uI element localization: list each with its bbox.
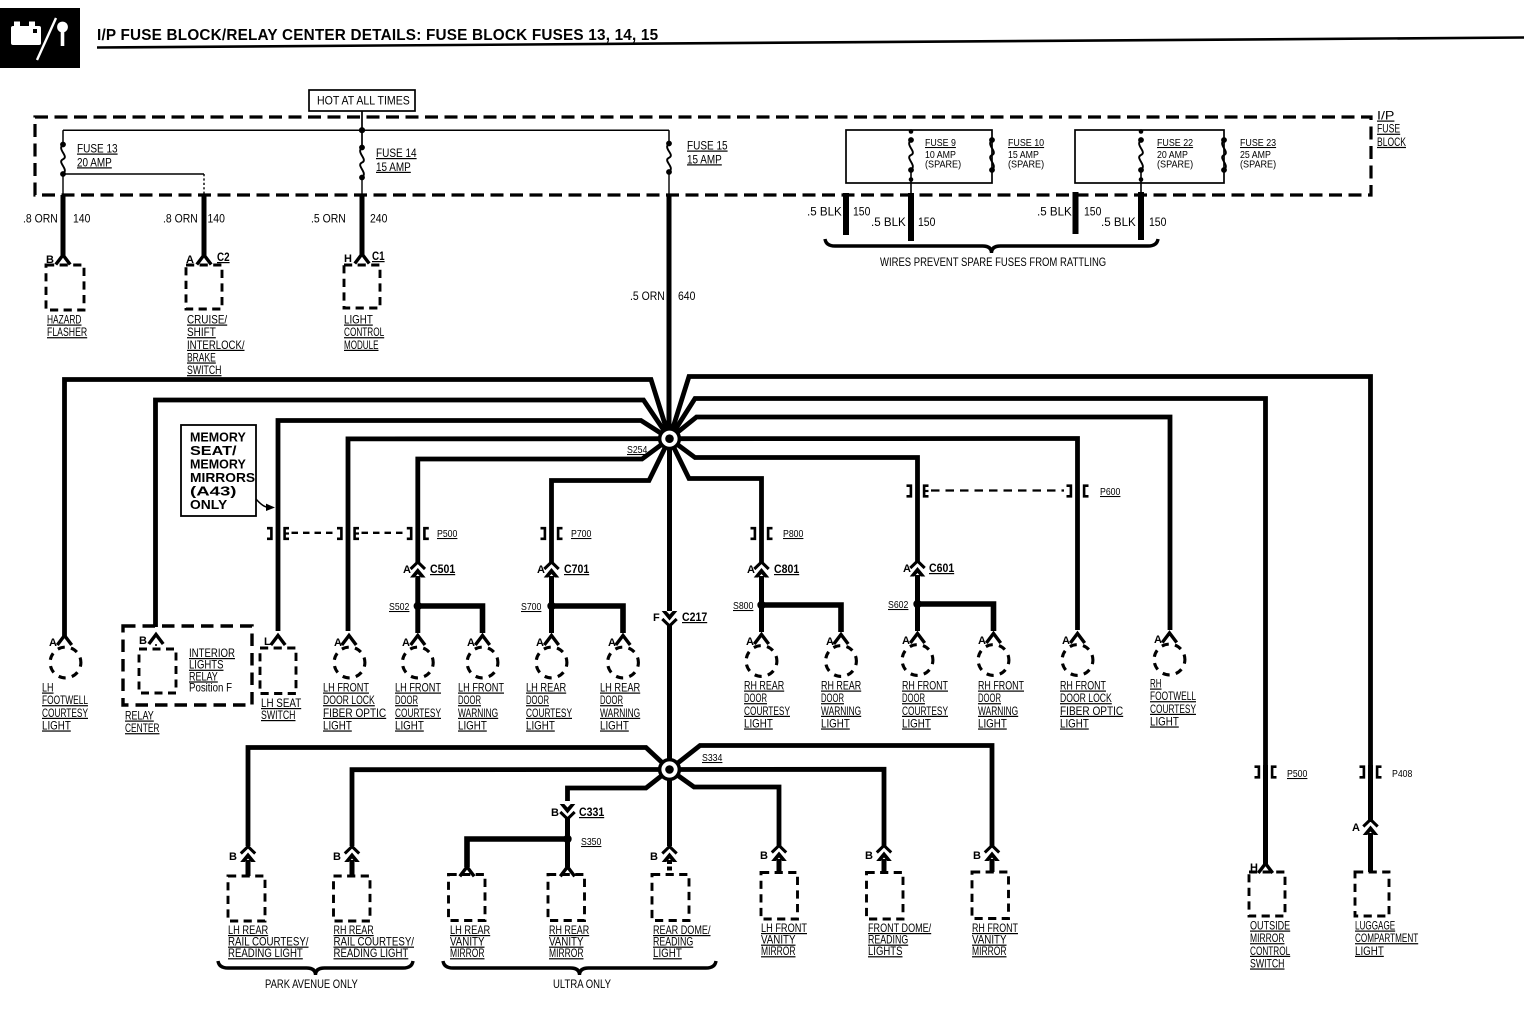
svg-text:.8 ORN: .8 ORN <box>163 212 198 226</box>
svg-text:C2: C2 <box>217 250 230 264</box>
svg-text:FUSE 13: FUSE 13 <box>77 142 118 156</box>
hazard flasher box <box>46 265 84 310</box>
svg-text:640: 640 <box>678 289 696 303</box>
svg-text:LIGHT: LIGHT <box>42 718 71 732</box>
outside mirror control switch box <box>1249 872 1285 916</box>
wire S700 branch to warning light <box>552 606 624 633</box>
svg-text:SWITCH: SWITCH <box>1250 956 1285 970</box>
wire S334 to LH rear rail courtesy <box>248 748 670 847</box>
LH front door lock fiber optic light <box>334 647 365 678</box>
svg-text:(SPARE): (SPARE) <box>1157 159 1193 171</box>
svg-text:A: A <box>1352 822 1360 834</box>
svg-text:MIRROR: MIRROR <box>761 944 796 958</box>
wire S254 to LH footwell <box>65 380 670 637</box>
wire luggage lower <box>1368 765 1373 822</box>
svg-text:150: 150 <box>1149 215 1167 229</box>
interior lights relay box <box>139 649 176 693</box>
svg-text:.5 ORN: .5 ORN <box>630 289 665 303</box>
wire S254 to C501 <box>418 439 670 563</box>
svg-text:.5 BLK: .5 BLK <box>1101 215 1136 229</box>
wire S254 to relay center <box>156 400 670 627</box>
svg-text:P500: P500 <box>437 528 458 540</box>
svg-text:P600: P600 <box>1100 486 1121 498</box>
svg-text:.5 BLK: .5 BLK <box>807 205 842 219</box>
fuse F22 20A spare <box>1139 129 1144 134</box>
luggage compartment light box <box>1355 872 1389 916</box>
wire S254 to LH front door lock <box>348 439 670 631</box>
RH footwell courtesy light <box>1154 644 1185 675</box>
wire S334 to LH front vanity <box>670 770 780 847</box>
svg-text:LIGHT: LIGHT <box>744 716 773 730</box>
svg-text:ULTRA ONLY: ULTRA ONLY <box>553 977 611 991</box>
wire S602 down <box>915 604 920 631</box>
brace ultra only <box>443 961 716 975</box>
svg-text:B: B <box>865 850 873 862</box>
svg-text:140: 140 <box>208 212 226 226</box>
LH front vanity mirror box <box>761 873 798 920</box>
wire fuse14 out <box>361 178 363 196</box>
wire S502 branch to warning light <box>418 606 483 633</box>
wire C331 to S350 <box>565 818 570 839</box>
fuse F13 20A <box>60 142 66 148</box>
svg-text:A: A <box>903 563 911 575</box>
RH front vanity mirror box <box>972 872 1009 919</box>
wire S334 to RH front vanity <box>670 746 993 847</box>
wire S254 to RH footwell <box>670 417 1171 630</box>
svg-text:A: A <box>902 635 910 647</box>
svg-text:S602: S602 <box>888 599 909 611</box>
svg-text:READING LIGHT: READING LIGHT <box>334 946 409 960</box>
wire spare stub 4 <box>1138 192 1144 240</box>
connector P408 luggage <box>1360 767 1364 778</box>
svg-text:FUSE: FUSE <box>1377 122 1400 136</box>
wire S254 to RH front door lock <box>670 439 1078 631</box>
svg-text:LIGHT: LIGHT <box>821 716 850 730</box>
splice S502 <box>414 602 422 610</box>
svg-text:B: B <box>551 807 559 819</box>
LH rear door warning light <box>608 647 639 678</box>
wire S254 to outside mirror switch <box>670 399 1266 768</box>
svg-text:I/P FUSE BLOCK/RELAY CENTER DE: I/P FUSE BLOCK/RELAY CENTER DETAILS: FUS… <box>97 27 659 44</box>
fuse F9 10A spare <box>909 129 914 134</box>
svg-text:.5 BLK: .5 BLK <box>1037 205 1072 219</box>
svg-text:240: 240 <box>370 212 388 226</box>
RH front door lock fiber optic light <box>1062 645 1093 676</box>
svg-text:P408: P408 <box>1392 768 1413 780</box>
svg-text:A: A <box>1154 634 1162 646</box>
svg-text:MODULE: MODULE <box>344 338 379 352</box>
svg-text:FUSE 14: FUSE 14 <box>376 146 417 160</box>
svg-text:SWITCH: SWITCH <box>261 708 296 722</box>
svg-text:B: B <box>139 635 147 647</box>
RH rear door warning light <box>826 646 857 677</box>
brace park avenue only <box>218 961 413 975</box>
svg-text:C1: C1 <box>372 249 385 263</box>
wire fuse13 tap to C2 branch <box>63 173 204 175</box>
LH front door courtesy light <box>402 647 433 678</box>
svg-text:HOT AT ALL TIMES: HOT AT ALL TIMES <box>317 94 410 108</box>
svg-text:C801: C801 <box>774 562 799 576</box>
svg-text:SWITCH: SWITCH <box>187 363 222 377</box>
connector P600 <box>907 486 911 497</box>
svg-text:A: A <box>747 564 755 576</box>
wire S700 down <box>549 606 554 633</box>
splice S350 <box>563 835 571 843</box>
light control module box <box>344 265 380 308</box>
wire .5 ORN 640 main feed <box>667 195 672 439</box>
wire S350 down RH rear vanity <box>565 839 570 867</box>
wire .8 ORN 140 cruise <box>202 195 207 256</box>
wire S254 to C701 <box>552 439 670 563</box>
cruise/shift interlock box <box>186 265 222 309</box>
svg-text:LIGHT: LIGHT <box>653 946 682 960</box>
terminal LH rear vanity <box>460 867 474 877</box>
LH rear door courtesy light <box>536 647 567 678</box>
wire S254 to C601 <box>670 439 918 563</box>
svg-text:P500: P500 <box>1287 768 1308 780</box>
svg-text:S334: S334 <box>702 752 723 764</box>
wire S602 branch to warning <box>918 604 994 631</box>
svg-text:B: B <box>973 850 981 862</box>
svg-text:CENTER: CENTER <box>125 721 160 735</box>
svg-text:C701: C701 <box>564 562 589 576</box>
svg-text:S502: S502 <box>389 601 410 613</box>
LH rear rail courtesy/reading box <box>228 876 265 921</box>
wire S254 to luggage compartment <box>670 377 1371 768</box>
svg-text:20 AMP: 20 AMP <box>77 155 112 169</box>
title underline <box>97 38 1524 48</box>
fuse F14 15A <box>359 145 365 151</box>
wire C217 to S334 <box>667 625 672 770</box>
fuse F15 15A <box>666 141 672 147</box>
svg-text:LIGHT: LIGHT <box>1060 716 1089 730</box>
rear dome/reading light box <box>652 875 689 921</box>
svg-text:.5 BLK: .5 BLK <box>871 215 906 229</box>
svg-text:A: A <box>334 637 342 649</box>
RH front door warning light <box>978 645 1009 676</box>
svg-text:LIGHT: LIGHT <box>978 716 1007 730</box>
svg-text:A: A <box>1062 635 1070 647</box>
wire .8 ORN 140 hazard <box>61 195 66 256</box>
wire S254 to LH seat switch <box>278 421 670 632</box>
note MEMORY SEAT/MEMORY MIRRORS (A43) ONLY <box>181 425 256 516</box>
connector P700 <box>541 528 545 539</box>
svg-text:PARK AVENUE ONLY: PARK AVENUE ONLY <box>265 977 358 991</box>
svg-text:FUSE 10: FUSE 10 <box>1008 137 1044 149</box>
header icon battery/lamp <box>0 8 80 68</box>
svg-text:I/P: I/P <box>1377 109 1394 123</box>
front dome/reading lights box <box>867 873 904 920</box>
wire S800 down <box>759 605 764 632</box>
wire fuse13 out <box>62 174 64 195</box>
connector P800 <box>751 528 755 539</box>
svg-text:(SPARE): (SPARE) <box>1008 159 1044 171</box>
wire .5 ORN 240 LCM <box>360 195 365 255</box>
svg-text:A: A <box>537 564 545 576</box>
svg-text:LIGHTS: LIGHTS <box>868 944 903 958</box>
splice S800 <box>757 601 765 609</box>
LH footwell courtesy light <box>50 647 81 678</box>
svg-text:150: 150 <box>853 205 871 219</box>
fuse F23 25A spare <box>1221 137 1227 143</box>
wire bus to fuse 13 <box>62 130 64 144</box>
brace spare fuses <box>825 239 1158 253</box>
wire spare stub 1 <box>843 193 849 235</box>
junction bus <box>359 127 365 133</box>
wire S254 to C801 <box>670 439 762 563</box>
svg-text:LIGHT: LIGHT <box>395 718 424 732</box>
svg-text:A: A <box>403 564 411 576</box>
svg-text:A: A <box>978 635 986 647</box>
RH rear door courtesy light <box>746 646 777 677</box>
LH seat switch box <box>260 648 296 694</box>
wire S800 branch to warning <box>762 605 842 632</box>
svg-text:C217: C217 <box>682 610 707 624</box>
svg-text:140: 140 <box>73 212 91 226</box>
svg-text:(SPARE): (SPARE) <box>925 159 961 171</box>
svg-text:S254: S254 <box>627 444 648 456</box>
svg-text:WIRES PREVENT SPARE FUSES FROM: WIRES PREVENT SPARE FUSES FROM RATTLING <box>880 255 1106 269</box>
svg-text:A: A <box>746 636 754 648</box>
svg-text:FUSE 9: FUSE 9 <box>925 137 956 149</box>
node HOT AT ALL TIMES <box>309 90 415 111</box>
svg-text:Position F: Position F <box>189 681 232 695</box>
wire fuse22 lower lead <box>1140 170 1142 193</box>
svg-text:C501: C501 <box>430 562 455 576</box>
svg-text:MIRROR: MIRROR <box>450 946 485 960</box>
svg-text:FUSE 23: FUSE 23 <box>1240 137 1276 149</box>
RH front door courtesy light <box>902 645 933 676</box>
I/P fuse block outline <box>35 117 1371 195</box>
connector P500 <box>267 528 271 539</box>
wire S334 to front dome lights <box>670 769 885 846</box>
splice S602 <box>913 600 921 608</box>
wire fuse bus <box>63 129 669 131</box>
svg-text:P800: P800 <box>783 528 804 540</box>
svg-text:A: A <box>536 637 544 649</box>
svg-text:A: A <box>49 637 57 649</box>
svg-text:BLOCK: BLOCK <box>1377 135 1406 149</box>
svg-text:LIGHT: LIGHT <box>1150 714 1179 728</box>
svg-text:LIGHT: LIGHT <box>458 718 487 732</box>
svg-text:FLASHER: FLASHER <box>47 325 87 339</box>
svg-text:S700: S700 <box>521 601 542 613</box>
wire C501 to S502 <box>415 576 420 606</box>
svg-text:S800: S800 <box>733 600 754 612</box>
svg-text:S350: S350 <box>581 836 602 848</box>
svg-text:15 AMP: 15 AMP <box>376 160 411 174</box>
relay center box <box>123 626 252 705</box>
svg-text:A: A <box>608 637 616 649</box>
svg-text:H: H <box>344 253 352 265</box>
svg-text:A: A <box>826 636 834 648</box>
wire C601 to S602 <box>915 575 920 604</box>
splice S254 <box>658 427 681 450</box>
arrow memory note <box>256 499 268 507</box>
svg-text:P700: P700 <box>571 528 592 540</box>
svg-text:LIGHT: LIGHT <box>600 718 629 732</box>
svg-text:150: 150 <box>918 215 936 229</box>
splice S700 <box>547 602 555 610</box>
svg-text:15 AMP: 15 AMP <box>687 152 722 166</box>
terminal RH rear vanity <box>560 867 574 877</box>
svg-text:FUSE 22: FUSE 22 <box>1157 137 1193 149</box>
svg-text:LIGHT: LIGHT <box>1355 944 1384 958</box>
svg-text:READING LIGHT: READING LIGHT <box>228 946 303 960</box>
svg-text:LIGHT: LIGHT <box>526 718 555 732</box>
svg-text:ONLY: ONLY <box>190 497 228 512</box>
splice S334 <box>658 758 681 781</box>
spare fuse box 2 <box>1075 130 1224 183</box>
svg-text:C601: C601 <box>929 561 954 575</box>
svg-text:LIGHT: LIGHT <box>902 716 931 730</box>
wire fuse9 lower lead <box>910 170 912 193</box>
RH rear rail courtesy/reading box <box>334 876 371 921</box>
svg-text:150: 150 <box>1084 205 1102 219</box>
connector P500 mirror switch <box>1255 767 1259 778</box>
connector C217 <box>662 611 678 621</box>
wire C801 to S800 <box>759 576 764 605</box>
fuse F10 15A spare <box>989 137 995 143</box>
svg-text:A: A <box>467 637 475 649</box>
wire spare stub 3 <box>1073 192 1079 234</box>
LH rear vanity mirror box <box>449 875 486 921</box>
svg-text:B: B <box>333 851 341 863</box>
svg-text:A: A <box>402 637 410 649</box>
svg-text:C331: C331 <box>579 805 604 819</box>
svg-text:MIRROR: MIRROR <box>972 944 1007 958</box>
svg-text:B: B <box>760 850 768 862</box>
svg-text:B: B <box>229 851 237 863</box>
wire spare stub 2 <box>908 193 914 241</box>
svg-text:.8 ORN: .8 ORN <box>23 212 58 226</box>
wire HOT feed to bus <box>361 111 363 147</box>
svg-text:.5 ORN: .5 ORN <box>311 212 346 226</box>
svg-text:(SPARE): (SPARE) <box>1240 159 1276 171</box>
wire C701 to S700 <box>549 576 554 606</box>
wire fuse15 out <box>668 172 670 195</box>
wire S334 to RH rear rail courtesy <box>352 770 670 847</box>
wire outside mirror switch lower <box>1263 765 1268 864</box>
svg-text:F: F <box>653 612 660 624</box>
wire S502 down <box>415 606 420 633</box>
wire S254 down to C217 <box>667 439 672 611</box>
LH front door warning light <box>467 647 498 678</box>
svg-text:MIRROR: MIRROR <box>549 946 584 960</box>
RH rear vanity mirror box <box>548 875 585 921</box>
wire S334 to C331 <box>568 770 670 802</box>
svg-text:FUSE 15: FUSE 15 <box>687 139 728 153</box>
svg-text:LIGHT: LIGHT <box>323 718 352 732</box>
wire bus to fuse 15 <box>668 130 670 143</box>
spare fuse box 1 <box>846 130 992 183</box>
svg-text:B: B <box>650 851 658 863</box>
wire S350 branch LH rear vanity <box>467 839 568 867</box>
svg-text:L: L <box>264 636 271 648</box>
wire S334 to rear dome light <box>667 770 672 847</box>
